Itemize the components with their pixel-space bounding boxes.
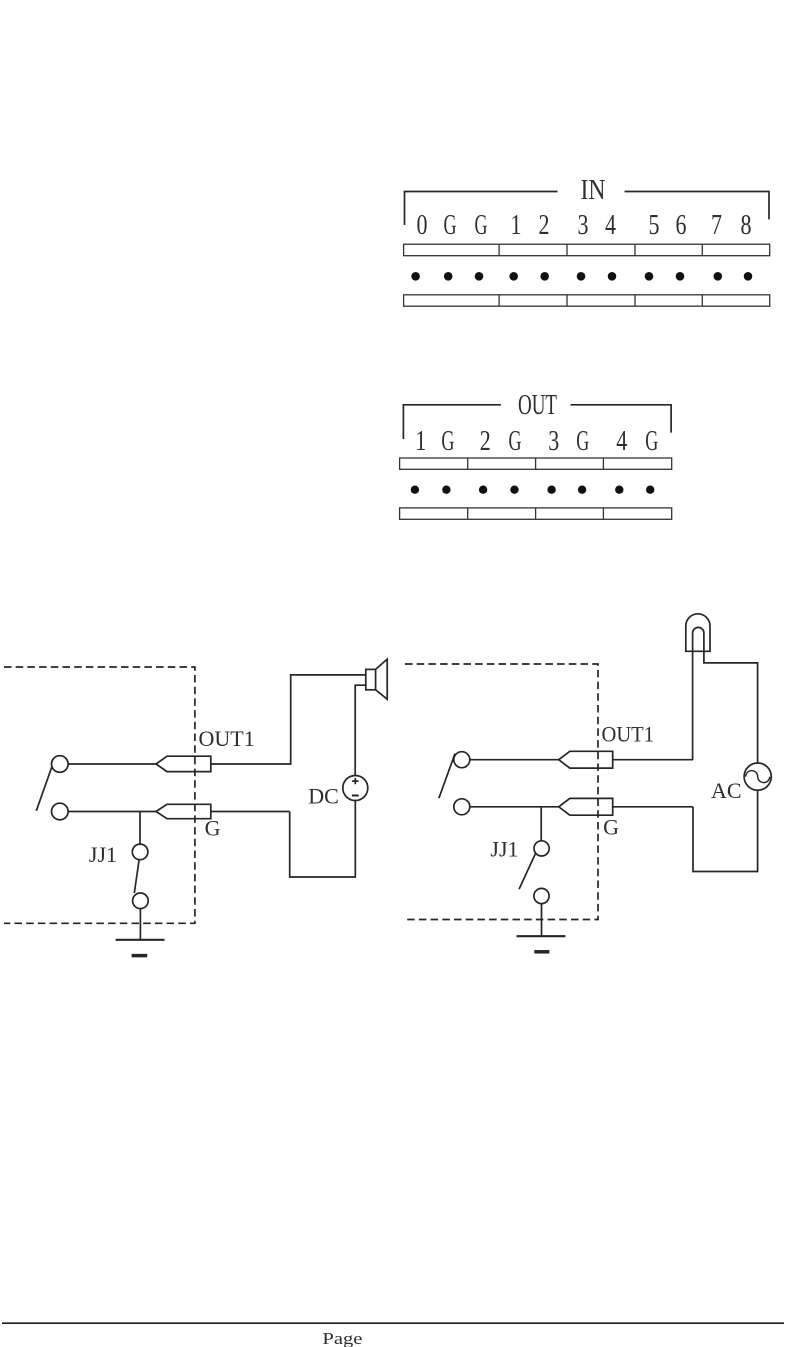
wire AC return to G row [693,790,758,871]
svg-text:5: 5 [649,210,660,241]
svg-text:G: G [441,426,454,457]
svg-text:AC: AC [711,778,742,803]
jumper JJ1 lower contact [133,893,149,909]
speaker LS1 [366,669,376,689]
IN terminal dots [411,272,420,281]
svg-text:OUT1: OUT1 [199,726,255,751]
svg-text:7: 7 [711,210,722,241]
dashed enclosure box left [4,667,195,923]
OUT terminal strip upper [400,458,672,469]
bracket OUT header [403,405,671,439]
ground symbol left [116,939,165,941]
svg-text:1: 1 [415,426,426,457]
wire junction to jumper JJ1 right [540,807,542,841]
AC sine wave [746,771,770,783]
svg-text:OUT: OUT [518,390,557,421]
DC plus mark [352,778,358,784]
wire G connector to return [211,811,290,813]
svg-text:4: 4 [605,210,616,241]
wire speaker to DC source [355,685,366,775]
AC source G1 [744,763,771,790]
ground symbol right [517,935,566,937]
svg-text:0: 0 [417,210,428,241]
switch S1 lower contact [52,803,69,820]
svg-text:2: 2 [480,426,491,457]
lamp HL1 envelope dome [686,614,710,651]
jumper JJ1 upper contact [132,844,148,860]
wire DC return to G row [290,801,356,878]
wire OUT1 to speaker branch [211,675,366,764]
wire upper row to OUT1 [470,759,559,761]
svg-text:G: G [603,814,619,839]
IN terminal strip upper [404,244,770,256]
svg-text:DC: DC [308,783,339,808]
jumper JJ1 right upper contact [534,841,549,856]
svg-text:G: G [509,426,522,457]
svg-text:3: 3 [548,426,559,457]
svg-text:G: G [444,210,457,241]
svg-text:OUT1: OUT1 [602,722,655,747]
OUT terminal dots [411,486,419,494]
svg-text:4: 4 [616,426,627,457]
svg-text:8: 8 [741,210,752,241]
DC minus mark [352,795,359,797]
connector G right [559,798,613,815]
DC source B1 [343,776,368,801]
connector OUT1 right [559,751,613,768]
connector OUT1 [156,756,211,771]
wire junction to jumper JJ1 [139,812,141,844]
switch S2 lever [439,754,455,799]
jumper JJ1 blade [134,860,139,893]
wire G connector to return [613,806,693,808]
lamp HL1 filament arch and legs [693,627,758,763]
wire jumper to ground [139,909,141,939]
bracket IN header [405,192,770,226]
svg-text:1: 1 [511,210,522,241]
wire upper row to OUT1 [68,763,156,765]
svg-text:G: G [205,815,221,840]
svg-text:G: G [475,210,488,241]
wire lower row to G connector [470,806,559,808]
switch S2 upper contact [454,752,470,768]
svg-text:2: 2 [539,210,550,241]
svg-text:JJ1: JJ1 [89,842,117,867]
svg-text:G: G [576,426,589,457]
jumper JJ1 right blade [519,854,535,890]
dashed enclosure box right [405,664,598,920]
svg-text:6: 6 [676,210,687,241]
wire OUT1 to lamp [613,759,693,761]
svg-text:Page: Page [322,1329,362,1347]
footer rule [2,1322,784,1324]
OUT terminal strip lower [400,508,672,519]
switch S1 lever [36,766,52,811]
connector G [156,804,211,818]
svg-text:JJ1: JJ1 [490,837,518,862]
switch S2 lower contact [454,799,470,815]
svg-text:3: 3 [578,210,589,241]
wire jumper to ground right [541,904,543,936]
svg-text:IN: IN [581,175,606,206]
wire lower row to G connector [68,811,156,813]
switch S1 upper contact [52,756,69,773]
IN terminal strip lower [404,295,770,306]
jumper JJ1 right lower contact [534,888,549,903]
svg-text:G: G [645,426,658,457]
